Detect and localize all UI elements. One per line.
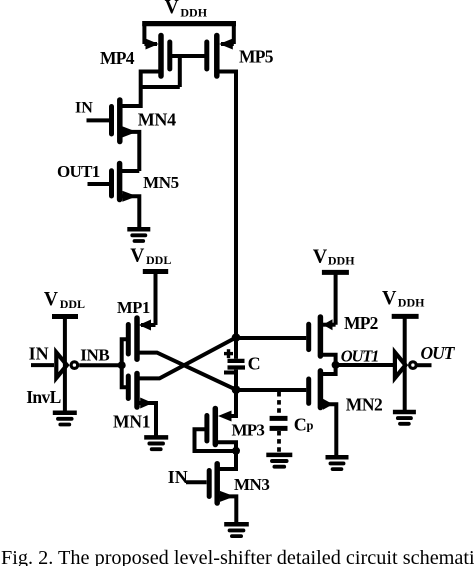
svg-text:OUT1: OUT1 — [341, 347, 378, 366]
svg-text:IN: IN — [75, 100, 93, 117]
svg-text:C: C — [294, 415, 307, 435]
svg-text:C: C — [248, 354, 261, 374]
svg-text:MN3: MN3 — [234, 475, 269, 494]
svg-text:MP4: MP4 — [100, 48, 135, 68]
svg-text:MN1: MN1 — [113, 411, 150, 431]
svg-text:MP5: MP5 — [239, 46, 274, 66]
svg-text:V: V — [313, 246, 328, 268]
svg-text:MP3: MP3 — [232, 421, 265, 440]
svg-text:MP1: MP1 — [117, 298, 150, 317]
svg-text:DDH: DDH — [398, 296, 425, 310]
svg-text:p: p — [307, 419, 314, 433]
svg-text:IN: IN — [29, 344, 49, 364]
svg-text:IN: IN — [168, 467, 188, 487]
svg-text:OUT1: OUT1 — [57, 162, 100, 181]
svg-text:V: V — [382, 287, 397, 309]
svg-text:V: V — [165, 0, 179, 18]
svg-text:INB: INB — [80, 346, 109, 365]
svg-text:DDL: DDL — [146, 253, 171, 267]
svg-text:MP2: MP2 — [344, 313, 378, 333]
svg-text:DDH: DDH — [328, 253, 355, 267]
svg-text:InvL: InvL — [26, 387, 61, 407]
svg-text:OUT: OUT — [421, 343, 456, 363]
svg-text:MN2: MN2 — [346, 395, 382, 415]
svg-text:V: V — [130, 245, 144, 266]
svg-text:DDH: DDH — [180, 5, 207, 19]
svg-text:V: V — [44, 289, 58, 310]
svg-text:MN5: MN5 — [143, 173, 179, 192]
svg-text:Fig. 2. The proposed level-shi: Fig. 2. The proposed level-shifter detai… — [1, 547, 474, 566]
svg-text:DDL: DDL — [60, 297, 85, 311]
svg-text:MN4: MN4 — [138, 110, 176, 130]
